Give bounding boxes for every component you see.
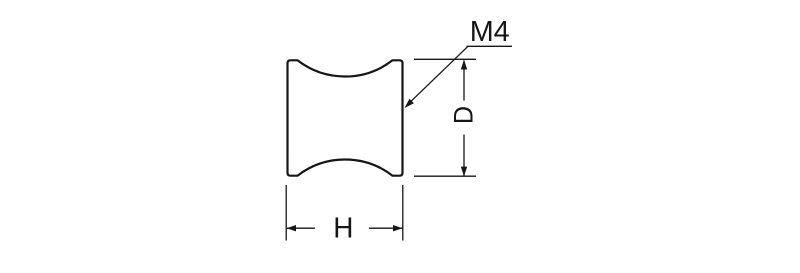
svg-text:M4: M4 <box>470 16 510 48</box>
dimension line D upper segment <box>463 61 465 101</box>
arrow up (D) <box>461 60 467 70</box>
arrow down (D) <box>461 167 467 177</box>
part outline (spool / knob cross-section) <box>288 60 403 175</box>
dimension line D lower segment <box>463 135 465 176</box>
arrow left (H) <box>287 225 297 231</box>
arrow right (H) <box>393 225 403 231</box>
extension line right (H) <box>402 185 404 241</box>
svg-text:H: H <box>333 213 353 245</box>
leader line for M4 thread callout <box>411 46 468 101</box>
dimension line H left segment <box>287 227 315 229</box>
extension line left (H) <box>285 185 287 241</box>
extension line top (D) <box>414 58 476 60</box>
M4 callout underline <box>467 45 513 47</box>
svg-text:D: D <box>449 106 479 124</box>
extension line bottom (D) <box>414 175 476 177</box>
leader arrowhead <box>405 99 414 108</box>
dimension line H right segment <box>369 227 403 229</box>
